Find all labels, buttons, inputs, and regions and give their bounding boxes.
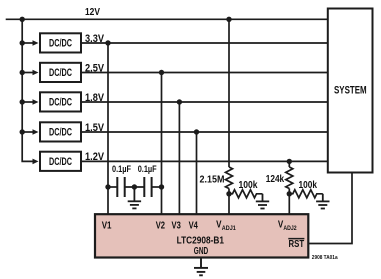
wire arrow feed 1.5V xyxy=(22,131,34,133)
wire input bus vertical xyxy=(22,19,33,161)
wire 1.8V rail xyxy=(82,101,328,103)
svg-text:DC/DC: DC/DC xyxy=(49,67,72,79)
wire cap row left xyxy=(108,186,117,188)
wire 2.5V rail xyxy=(82,72,328,74)
wire V1 column xyxy=(107,43,109,215)
svg-text:2.5V: 2.5V xyxy=(85,62,105,74)
pin label RST with overline xyxy=(288,238,304,250)
ground G4 IC GND pin xyxy=(194,258,208,276)
wire cap row mid xyxy=(125,186,145,188)
svg-text:V1: V1 xyxy=(102,220,112,232)
junction VADJ2 divider node xyxy=(287,191,292,196)
arrowhead into DC/DC 1.5V xyxy=(33,129,39,135)
wire 2.15M top segment xyxy=(228,19,230,167)
DC/DC converter block 2.5V xyxy=(40,63,81,82)
wire V2 column xyxy=(161,73,163,216)
resistor R1 2.15M zigzag xyxy=(226,167,233,189)
svg-text:DC/DC: DC/DC xyxy=(49,97,72,109)
pin label VADJ1 xyxy=(216,219,236,233)
junction bus 1.8V xyxy=(20,99,25,104)
wire VADJ1 segment xyxy=(228,189,230,216)
junction R3 on 1.2V rail xyxy=(287,159,292,164)
wire 1.5V rail xyxy=(82,131,328,133)
svg-text:DC/DC: DC/DC xyxy=(49,156,72,168)
arrowhead into DC/DC 2.5V xyxy=(33,70,39,76)
ground G1 below caps xyxy=(128,187,141,208)
svg-text:GND: GND xyxy=(194,245,209,257)
svg-text:2908 TA01a: 2908 TA01a xyxy=(312,255,339,261)
svg-text:V3: V3 xyxy=(172,220,181,232)
svg-text:3.3V: 3.3V xyxy=(85,33,105,45)
ground G2 after R2 xyxy=(256,194,269,209)
wire RST to SYSTEM xyxy=(309,173,353,244)
junction V1 on 3.3V rail xyxy=(105,40,110,45)
svg-text:1.5V: 1.5V xyxy=(85,122,105,134)
junction bus 2.5V xyxy=(20,70,25,75)
junction C1 V1 node xyxy=(105,184,110,189)
wire arrow feed 3.3V xyxy=(22,42,34,44)
svg-text:DC/DC: DC/DC xyxy=(49,38,72,50)
wire cap row right xyxy=(152,186,162,188)
resistor R2 100k zigzag horizontal xyxy=(229,190,263,198)
junction R1 on 12V rail xyxy=(226,17,231,22)
ground G3 after R4 xyxy=(316,194,329,209)
svg-text:0.1µF: 0.1µF xyxy=(138,164,157,174)
svg-text:DC/DC: DC/DC xyxy=(49,127,72,139)
DC/DC converter block 3.3V xyxy=(40,33,81,52)
junction bus-12V xyxy=(20,17,25,22)
arrowhead into DC/DC 1.2V xyxy=(33,159,39,165)
junction V4 on 1.5V rail xyxy=(194,129,199,134)
junction V2 on 2.5V rail xyxy=(159,70,164,75)
svg-text:ADJ1: ADJ1 xyxy=(222,225,236,232)
junction VADJ1 divider node xyxy=(226,191,231,196)
wire 1.2V rail xyxy=(82,160,328,162)
SYSTEM block xyxy=(328,9,373,173)
svg-text:124k: 124k xyxy=(266,174,285,185)
DC/DC converter block 1.8V xyxy=(40,92,81,111)
svg-text:SYSTEM: SYSTEM xyxy=(334,84,367,96)
wire V3 column xyxy=(178,102,180,215)
svg-text:0.1µF: 0.1µF xyxy=(112,164,131,174)
arrowhead into DC/DC 1.8V xyxy=(33,99,39,105)
pin label VADJ2 xyxy=(278,219,297,233)
wire 3.3V rail xyxy=(82,42,328,44)
DC/DC converter block 1.5V xyxy=(40,122,81,141)
svg-text:ADJ2: ADJ2 xyxy=(283,225,297,232)
wire VADJ2 segment xyxy=(288,189,290,216)
wire 12V rail xyxy=(6,18,328,20)
capacitor C2 0.1uF plates xyxy=(144,177,151,197)
wire arrow feed 1.8V xyxy=(22,101,34,103)
junction caps ground node xyxy=(132,184,137,189)
wire 124k top segment xyxy=(288,161,290,167)
junction V3 on 1.8V rail xyxy=(177,99,182,104)
svg-text:100k: 100k xyxy=(239,180,258,191)
svg-text:2.15M: 2.15M xyxy=(200,174,225,185)
arrowhead into DC/DC 3.3V xyxy=(33,40,39,46)
wire arrow feed 2.5V xyxy=(22,72,34,74)
svg-text:RST: RST xyxy=(289,238,305,250)
svg-text:100k: 100k xyxy=(299,180,318,191)
svg-text:V2: V2 xyxy=(156,220,165,232)
svg-text:V4: V4 xyxy=(189,220,198,232)
junction bus 3.3V xyxy=(20,40,25,45)
svg-text:1.8V: 1.8V xyxy=(85,92,105,104)
capacitor C1 0.1uF plates xyxy=(117,177,124,197)
svg-text:V: V xyxy=(216,219,221,231)
op IC U1 LTC2908-B1 body xyxy=(95,214,308,257)
svg-text:1.2V: 1.2V xyxy=(85,151,105,163)
DC/DC converter block 1.2V xyxy=(40,152,81,171)
junction bus 1.5V xyxy=(20,129,25,134)
resistor R3 124k zigzag xyxy=(286,167,293,189)
junction C2 V2 node xyxy=(159,184,164,189)
wire V4 column xyxy=(196,132,198,215)
resistor R4 100k zigzag horizontal xyxy=(289,190,323,198)
svg-text:12V: 12V xyxy=(85,6,100,18)
